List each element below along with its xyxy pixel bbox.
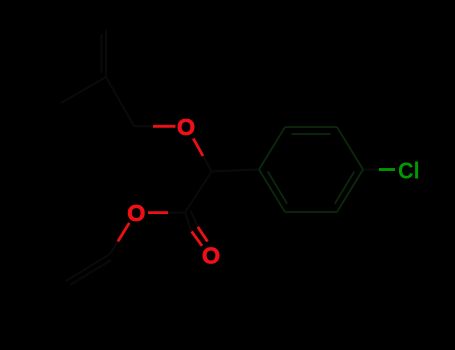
wire: ring edge A-B [259,127,285,170]
wire: ether O-CH2 bond red half [153,125,176,128]
wire: ring inner aromatic line D-E [335,172,355,204]
wire: methallyl CH2-C bond [106,77,134,126]
wire: C1=O carbonyl double bond red half line 2 [198,227,208,242]
svg-text:O: O [177,114,195,140]
svg-text:O: O [202,243,220,269]
wire: C1=O carbonyl double bond red half line 1 [192,232,202,246]
near-black carbon skeleton (barely visible, matches faint frame) [61,30,379,285]
wire: Cl bond green half [379,168,395,171]
wire: ether O-C2 bond red half [193,139,203,157]
red oxygen bond halves [118,126,208,246]
svg-text:O: O [127,200,145,226]
wire: ring edge E-F [285,211,337,213]
wire: ring edge B-C [285,126,337,128]
wire: C1-esterO bond carbon half [167,212,185,214]
wire: ring inner aromatic line B-C [292,133,331,135]
wire: esterO-allyl CH2 bond carbon half [110,241,118,254]
wire: methallyl C-CH3 bond [61,77,106,103]
wire: ring edge D-E [337,170,363,213]
wire: ring edge C-D [337,127,363,170]
wire: ether O-C2 bond carbon half [203,156,212,172]
benzene ring C6H4 (dark green) [259,127,363,212]
wire: methallyl =CH2 double bond [105,30,107,77]
wire: C2-C1 bond [185,172,212,213]
svg-text:Cl: Cl [398,158,420,184]
wire: esterO-allyl CH2 bond red half [118,223,129,242]
wire: C2-ring bond [212,170,260,172]
wire: ring inner aromatic line F-A [268,172,288,204]
wire: C1=O carbonyl double bond carbon halves [185,213,192,232]
wire: ring-Cl bond carbon half [363,169,379,171]
wire: ring edge F-A [259,170,285,213]
wire: ether O-CH2 bond carbon half [134,125,153,127]
wire: allyl C=C double bond [66,254,110,281]
wire: C1-esterO bond red half [148,211,168,214]
